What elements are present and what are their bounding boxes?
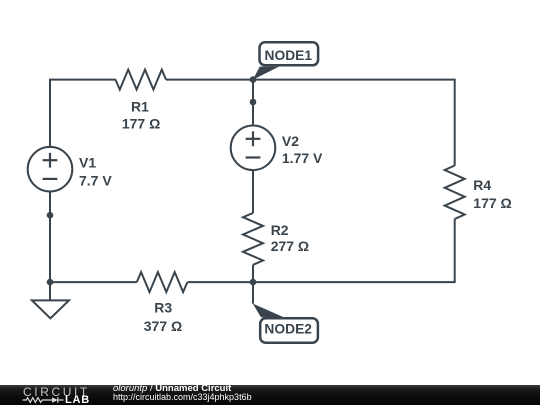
svg-text:1.77 V: 1.77 V — [282, 150, 323, 166]
label V1 — [79, 154, 112, 188]
wire: NODE1 to V2 top — [252, 80, 254, 126]
wire top-left: V1 top to R1 — [50, 80, 116, 148]
NODE1 flag tail — [253, 67, 279, 80]
junction node dot at ground — [47, 279, 54, 286]
logo word LAB — [65, 395, 90, 406]
svg-text:277 Ω: 277 Ω — [271, 238, 309, 254]
label R4 — [473, 177, 511, 211]
resistor R3 — [137, 272, 188, 292]
footer url line — [113, 393, 252, 402]
label V2 — [282, 133, 323, 166]
svg-text:V1: V1 — [79, 154, 96, 170]
svg-text:R4: R4 — [473, 177, 491, 193]
footer bar — [0, 385, 540, 405]
svg-text:V2: V2 — [282, 133, 299, 149]
NODE2 stub wire — [252, 282, 254, 304]
svg-text:NODE1: NODE1 — [265, 48, 313, 63]
NODE2 flag box — [260, 318, 318, 342]
wire: V2 bottom to R2 — [252, 170, 254, 213]
label R1 — [122, 98, 160, 131]
voltage source V2 — [231, 126, 276, 171]
wire: R2 to bottom rail — [252, 265, 254, 282]
svg-text:177 Ω: 177 Ω — [473, 195, 511, 211]
NODE1 flag box — [260, 42, 319, 65]
junction node dot on left rail — [47, 212, 54, 219]
svg-text:R3: R3 — [154, 299, 172, 315]
label R2 — [271, 222, 309, 254]
wire top: R1 to right rail — [166, 80, 455, 166]
svg-text:7.7 V: 7.7 V — [79, 172, 112, 188]
resistor R2 — [243, 213, 263, 265]
ground — [32, 300, 69, 318]
svg-text:NODE2: NODE2 — [264, 321, 312, 336]
wire right-bottom: R4 to bottom rail — [187, 219, 454, 282]
footer credit line — [113, 384, 231, 394]
node A: NODE1 junction dot — [250, 76, 257, 83]
CircuitLab logo wordmark CIRCUIT — [23, 386, 90, 398]
NODE2 flag tail — [253, 304, 284, 318]
svg-text:377 Ω: 377 Ω — [144, 318, 182, 334]
wire bottom-left: R3 to V1 bottom — [50, 192, 137, 283]
resistor R4 — [445, 166, 465, 219]
junction dot above V2 — [250, 99, 257, 106]
label R3 — [144, 299, 182, 334]
logo resistor+diode glyph — [21, 395, 71, 405]
resistor R1 — [116, 70, 167, 90]
svg-text:R2: R2 — [271, 222, 289, 238]
ground stub wire — [49, 282, 51, 300]
svg-text:R1: R1 — [131, 98, 149, 114]
voltage source V1 — [28, 147, 73, 192]
node B: NODE2 junction dot — [250, 279, 257, 286]
svg-text:177 Ω: 177 Ω — [122, 116, 160, 132]
